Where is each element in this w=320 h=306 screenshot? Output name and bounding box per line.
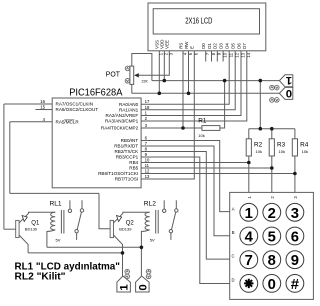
svg-text:RL2 "Kilit": RL2 "Kilit" — [15, 272, 66, 283]
svg-text:RA4/T0CKI/CMP2: RA4/T0CKI/CMP2 — [101, 126, 139, 131]
svg-text:D0: D0 — [201, 43, 206, 49]
wire left vertical 2 from pin4 down — [9, 122, 11, 194]
svg-text:R4: R4 — [300, 141, 309, 148]
relay RL1 blade — [77, 212, 81, 229]
LCD pin numbers rotated — [159, 52, 252, 57]
svg-text:PIC16F628A: PIC16F628A — [69, 87, 123, 98]
logic state flag 0 (bottom) wire — [140, 247, 142, 276]
potentiometer RV1 body — [130, 66, 134, 84]
svg-text:10: 10 — [223, 52, 228, 57]
relay RL2 core — [156, 210, 159, 234]
svg-text:D2: D2 — [213, 43, 218, 49]
Q2 emitter lead down — [113, 235, 122, 253]
svg-text:3: 3 — [291, 206, 299, 222]
logic state flag 1 (bottom) wire — [122, 253, 124, 276]
svg-text:17: 17 — [145, 99, 150, 104]
svg-text:8: 8 — [145, 147, 148, 152]
wire under PIC — [10, 192, 99, 194]
svg-text:RL1: RL1 — [50, 200, 62, 207]
PIC pin numbers left — [40, 99, 45, 122]
resistor R2 body — [246, 139, 251, 156]
svg-text:8: 8 — [268, 253, 276, 269]
svg-text:6: 6 — [145, 136, 148, 141]
svg-text:RS: RS — [178, 43, 183, 49]
svg-text:D4: D4 — [225, 43, 230, 49]
relay RL1 contact common — [68, 209, 71, 212]
node VSS-gnd — [158, 92, 162, 96]
pot increment button — [125, 66, 130, 83]
svg-text:RB3/CCP1: RB3/CCP1 — [116, 155, 139, 160]
LCD pin D4 wire to RA0 — [141, 51, 229, 104]
svg-text:12: 12 — [235, 52, 240, 57]
svg-text:14: 14 — [246, 52, 251, 57]
svg-text:10k: 10k — [198, 133, 204, 138]
svg-text:D: D — [231, 277, 234, 282]
LCD pin D6 wire to RA2 — [141, 51, 241, 116]
wire top rail to +5V — [259, 81, 261, 129]
PIC pin numbers right — [145, 99, 150, 179]
svg-text:D7: D7 — [242, 43, 247, 49]
node R3top — [270, 127, 274, 131]
bottom flag 1 toggle buttons — [125, 269, 130, 278]
+5V rail — [152, 80, 280, 82]
wire R1 right to +5V rail — [220, 81, 225, 128]
transistor Q2 base bar — [110, 220, 113, 237]
svg-text:A: A — [232, 206, 235, 211]
svg-text:5V: 5V — [56, 238, 61, 243]
resistor R1 body — [202, 126, 220, 131]
transistor Q1 base bar — [16, 220, 19, 237]
ground rail — [132, 92, 280, 94]
wire R3 column 2 vertical — [271, 129, 273, 193]
relay RL1 core — [61, 210, 64, 234]
svg-text:3: 3 — [145, 123, 148, 128]
key star — [240, 275, 258, 293]
LCD inner display box — [153, 9, 259, 34]
wire RB5 to keypad col2 — [141, 167, 272, 169]
svg-text:D1: D1 — [207, 43, 212, 49]
svg-text:6: 6 — [291, 230, 299, 246]
key 3 — [286, 203, 304, 221]
wire pin16 RA7 to left loop — [4, 103, 52, 105]
svg-text:POT: POT — [106, 71, 121, 78]
svg-text:2: 2 — [268, 206, 276, 222]
svg-text:BD139: BD139 — [119, 227, 132, 232]
svg-text:R3: R3 — [277, 141, 286, 148]
Q1 emitter lead down — [19, 235, 28, 253]
svg-text:10k: 10k — [302, 149, 308, 154]
resistor R4 body — [292, 139, 297, 156]
key 9 — [286, 251, 304, 269]
LCD pin RS wire down to RA4 net — [182, 51, 184, 128]
key hash — [286, 275, 304, 293]
node R4-RB6 — [293, 172, 297, 176]
svg-text:1: 1 — [245, 206, 253, 222]
Q2 emitter arrow — [117, 216, 122, 222]
svg-text:RA0/AN0: RA0/AN0 — [119, 102, 139, 107]
relay RL1 coil — [47, 212, 55, 247]
svg-text:10k: 10k — [256, 149, 262, 154]
svg-text:VEE: VEE — [165, 40, 170, 49]
logic state 0 toggle buttons — [270, 98, 280, 103]
PIC pin labels left — [56, 102, 99, 125]
svg-text:RA6/OSC2/CLKOUT: RA6/OSC2/CLKOUT — [56, 107, 99, 112]
node R1-5V — [223, 79, 227, 83]
svg-text:D5: D5 — [231, 43, 236, 49]
svg-text:RB7/T1OSI: RB7/T1OSI — [115, 177, 139, 182]
svg-text:7: 7 — [245, 253, 253, 269]
svg-text:D6: D6 — [236, 43, 241, 49]
keypad buttons — [240, 203, 304, 292]
wire RB2 to keypad row C — [141, 152, 230, 260]
svg-text:22K: 22K — [142, 80, 149, 84]
node coils-flag0 — [140, 246, 144, 250]
node VDD-5V — [163, 79, 167, 83]
LCD pin D5 wire to RA1 — [141, 51, 235, 110]
wire pot top to +5V rail — [132, 54, 152, 81]
wire pot bottom to ground rail — [131, 84, 133, 93]
pin 15 stub unconnected — [35, 109, 52, 111]
svg-text:RA7/OSC1/CLKIN: RA7/OSC1/CLKIN — [56, 102, 94, 107]
svg-text:11: 11 — [145, 163, 150, 168]
svg-text:RB2/TX/CK: RB2/TX/CK — [114, 149, 139, 154]
svg-text:D3: D3 — [219, 43, 224, 49]
LCD pin E wire down to RB7 — [141, 51, 194, 179]
relay RL2 contact common — [163, 209, 166, 212]
Q2 collector lead to relay coil — [113, 212, 149, 223]
svg-text:B: B — [232, 230, 235, 235]
svg-text:RB0/INT: RB0/INT — [121, 138, 139, 143]
LCD pin D0 stub — [205, 51, 207, 62]
wire RA4 pin3 to R1 — [141, 127, 202, 129]
svg-text:0: 0 — [286, 89, 292, 101]
svg-text:11: 11 — [229, 52, 234, 57]
svg-text:18: 18 — [145, 105, 150, 110]
wire R2 column 1 vertical — [248, 129, 250, 193]
logic state flag 0 (bottom) — [136, 276, 150, 292]
logic state flag 0 (top, gnd net) — [279, 87, 292, 99]
svg-text:16: 16 — [40, 99, 45, 104]
relay RL1 pivot — [75, 230, 78, 233]
svg-text:5V: 5V — [150, 238, 155, 243]
wire RB6 to keypad col3 — [141, 173, 295, 175]
key 5 — [263, 227, 281, 245]
svg-text:RA1/AN1: RA1/AN1 — [119, 107, 139, 112]
svg-text:0: 0 — [137, 284, 149, 290]
node RS-RA4 — [181, 126, 185, 130]
svg-text:#: # — [291, 277, 299, 293]
wire RB4 to keypad col1 — [141, 162, 249, 164]
relay RL2 blade — [172, 212, 176, 229]
svg-text:13: 13 — [240, 52, 245, 57]
svg-text:RB5: RB5 — [129, 166, 138, 171]
svg-text:R1: R1 — [198, 117, 207, 124]
Q1 emitter arrow — [22, 216, 27, 222]
node R3-RB5 — [270, 166, 274, 170]
svg-text:4: 4 — [245, 230, 254, 246]
PIC16F628A U1 box — [52, 98, 141, 188]
svg-text:2: 2 — [145, 116, 148, 121]
node RW-gnd — [187, 92, 191, 96]
svg-text:RB6/T1OSO/T1CKI: RB6/T1OSO/T1CKI — [98, 171, 138, 176]
wire RB0 to keypad row A — [141, 141, 230, 212]
svg-text:RW: RW — [184, 41, 189, 49]
svg-text:R2: R2 — [254, 141, 263, 148]
svg-text:10k: 10k — [279, 149, 285, 154]
pull-up top rail R2 R3 R4 — [249, 128, 295, 130]
svg-text:RL2: RL2 — [144, 200, 156, 207]
svg-text:12: 12 — [145, 169, 150, 174]
key 0 — [263, 275, 281, 293]
LCD pin D2 stub — [216, 51, 218, 62]
LCD LCD1 outer box — [148, 3, 266, 51]
svg-text:BD139: BD139 — [25, 227, 38, 232]
emitter rail to +5 flag — [28, 252, 122, 254]
LCD pin D3 stub — [222, 51, 224, 62]
svg-text:E: E — [190, 46, 195, 49]
PIC pin labels right — [98, 102, 139, 182]
key 1 — [240, 203, 258, 221]
svg-text:2X16 LCD: 2X16 LCD — [185, 15, 212, 25]
svg-text:15: 15 — [40, 105, 45, 110]
keypad box — [230, 192, 314, 299]
LCD pin VDD wire to +5V rail — [163, 51, 165, 81]
node rail-R3top — [259, 127, 263, 131]
svg-text:1: 1 — [119, 284, 131, 291]
relay RL2 pivot — [169, 230, 172, 233]
svg-text:1: 1 — [285, 74, 292, 86]
svg-text:RB1/RX/DT: RB1/RX/DT — [114, 144, 138, 149]
svg-text:C: C — [231, 254, 234, 259]
wire pin4 RA5 — [10, 121, 52, 123]
coil rail to gnd flag — [47, 246, 141, 248]
svg-text:7: 7 — [145, 141, 148, 146]
LCD pin VSS wire to ground rail — [158, 51, 160, 94]
wire to Q1 base — [4, 228, 16, 230]
relay RL2 coil — [141, 212, 149, 247]
key 2 — [263, 203, 281, 221]
key asterisk glyph — [244, 279, 253, 288]
svg-text:9: 9 — [145, 152, 148, 157]
wire RB1 to keypad row B — [141, 146, 230, 236]
Q1 collector lead to relay coil — [19, 212, 55, 223]
relay RL1 contact NO — [80, 209, 83, 212]
node pullup-5V — [259, 79, 263, 83]
relay RL2 contact NO — [175, 209, 178, 212]
MCLR overline — [64, 119, 74, 121]
wire left vertical from pin16 down — [3, 104, 5, 229]
logic state flag 1 (bottom) — [117, 276, 130, 292]
node R2-RB4 — [247, 161, 251, 165]
logic state flag 1 (top, +5V net) — [279, 75, 292, 87]
wire drop to Q2 base — [99, 193, 110, 228]
LCD pin RW wire to ground rail — [188, 51, 190, 94]
key 8 — [263, 251, 281, 269]
svg-text:1: 1 — [145, 111, 148, 116]
svg-text:13: 13 — [145, 174, 150, 179]
LCD pin labels rotated — [155, 40, 248, 49]
svg-text:4: 4 — [43, 117, 46, 122]
bottom flag 0 toggle buttons — [146, 269, 151, 278]
svg-text:5: 5 — [268, 230, 276, 246]
svg-text:9: 9 — [291, 253, 299, 269]
potentiometer wiper arrow — [134, 73, 139, 77]
logic state 1 toggle buttons — [270, 85, 280, 90]
key 4 — [240, 227, 258, 245]
svg-text:0: 0 — [268, 277, 276, 293]
LCD pin D1 stub — [211, 51, 213, 62]
node emitters-flag1 — [121, 251, 125, 255]
svg-text:10: 10 — [145, 158, 150, 163]
wire RB3 to keypad row D — [141, 157, 230, 284]
wire R4 column 3 vertical — [294, 129, 296, 193]
resistor R3 body — [269, 139, 274, 156]
svg-text:RA2/AN2/VREF: RA2/AN2/VREF — [106, 113, 139, 118]
LCD pin D7 wire to RA3 — [141, 51, 247, 121]
svg-text:RB4: RB4 — [129, 160, 138, 165]
LCD pin VEE wire to pot wiper — [139, 51, 170, 76]
key 7 — [240, 251, 258, 269]
pot decrement button — [125, 79, 130, 84]
svg-text:RA3/AN3/CMP1: RA3/AN3/CMP1 — [105, 119, 139, 124]
key 6 — [286, 227, 304, 245]
